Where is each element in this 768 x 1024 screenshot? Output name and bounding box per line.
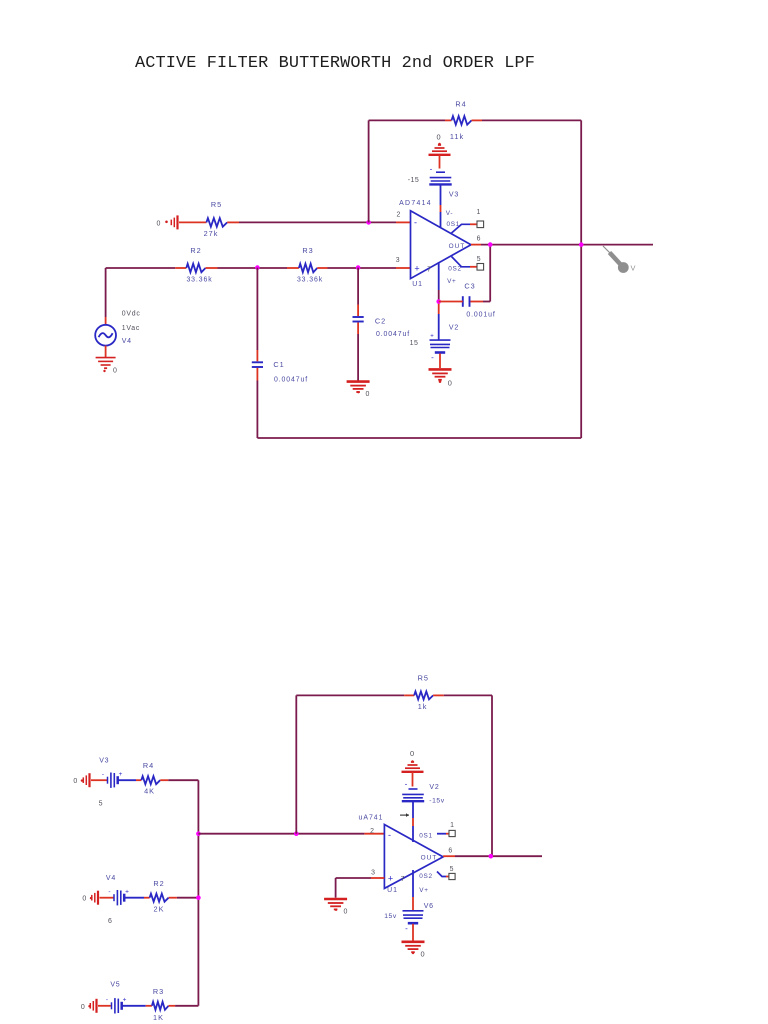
junction node bus/main wire bbox=[196, 831, 201, 836]
svg-text:V-: V- bbox=[446, 210, 453, 217]
svg-text:0.0047uf: 0.0047uf bbox=[376, 331, 410, 338]
op-amp U1 AD7414 bbox=[411, 211, 472, 279]
ground under V2 bbox=[429, 354, 452, 383]
wire V+ pin to V6 bbox=[412, 870, 414, 911]
label R4 bbox=[455, 100, 466, 109]
pin 2 label (uA741) bbox=[370, 828, 374, 835]
pin 6 label (uA741) bbox=[448, 848, 452, 855]
value 5 (V3) bbox=[99, 800, 103, 807]
wire V+ pin to V2 bbox=[438, 262, 440, 340]
svg-text:0.001uf: 0.001uf bbox=[466, 311, 495, 318]
svg-text:6: 6 bbox=[448, 848, 452, 855]
svg-text:1: 1 bbox=[476, 209, 480, 216]
junction node R2/R3/C1 bbox=[255, 265, 260, 270]
label V2 (summing) bbox=[429, 784, 439, 791]
ground (branch V4, rotated left) bbox=[90, 891, 114, 905]
label V6 bbox=[424, 903, 434, 910]
label OS1 (U1) bbox=[447, 221, 460, 228]
wire R3 to non-inverting input bbox=[317, 267, 410, 269]
probe label V bbox=[631, 264, 636, 273]
resistor R5 (summing feedback) bbox=[414, 691, 433, 699]
label OS1 (uA741) bbox=[419, 832, 432, 839]
svg-text:-: - bbox=[388, 830, 391, 840]
svg-text:6: 6 bbox=[477, 235, 481, 242]
wire top feedback left segment bbox=[369, 119, 452, 121]
svg-text:+: + bbox=[125, 889, 129, 896]
battery V4 (summing input) bbox=[108, 889, 129, 906]
svg-text:5: 5 bbox=[477, 256, 481, 263]
svg-text:6: 6 bbox=[108, 918, 112, 925]
svg-text:R3: R3 bbox=[302, 246, 313, 255]
svg-text:C3: C3 bbox=[464, 282, 475, 291]
ground under V6 bbox=[402, 942, 425, 954]
svg-text:V4: V4 bbox=[106, 875, 116, 882]
label V5 (summing) bbox=[110, 981, 120, 988]
net label 0 (above V2 summing) bbox=[410, 749, 414, 758]
label OS2 (uA741) bbox=[419, 873, 432, 880]
label V+ (uA741) bbox=[419, 887, 428, 894]
wire summing bus vertical bbox=[197, 780, 199, 1006]
net label 0 (above V3) bbox=[436, 132, 440, 141]
label C3 bbox=[464, 282, 475, 291]
junction node bus/branch V4 bbox=[196, 895, 201, 900]
svg-text:R4: R4 bbox=[455, 100, 466, 109]
svg-text:0: 0 bbox=[113, 367, 117, 374]
value 0.001uf (C3) bbox=[466, 311, 495, 318]
svg-text:-: - bbox=[102, 771, 104, 778]
wire OUT junction down to C3 bbox=[470, 245, 490, 302]
svg-text:R3: R3 bbox=[153, 987, 164, 996]
wire V5 to R3 bbox=[123, 1005, 152, 1007]
junction node feedback tap bbox=[294, 831, 299, 836]
svg-text:1k: 1k bbox=[418, 702, 428, 711]
resistor R5 bbox=[206, 218, 227, 227]
svg-text:V2: V2 bbox=[449, 325, 459, 332]
svg-text:-: - bbox=[405, 779, 408, 788]
wire right feedback vertical (summing) bbox=[491, 695, 493, 856]
svg-text:0: 0 bbox=[410, 749, 414, 758]
op-amp U1 uA741 bbox=[384, 825, 443, 889]
battery V6 bbox=[403, 911, 424, 933]
label V- (U1) bbox=[446, 210, 453, 217]
svg-text:V+: V+ bbox=[419, 887, 428, 894]
net label 0 (under V6) bbox=[421, 950, 425, 959]
battery V2 (summing supply) bbox=[402, 779, 424, 801]
ground (branch V5, rotated left) bbox=[88, 999, 111, 1013]
svg-text:C1: C1 bbox=[273, 360, 284, 369]
svg-text:0.0047uf: 0.0047uf bbox=[274, 376, 308, 383]
svg-text:2: 2 bbox=[396, 211, 400, 218]
svg-text:U1: U1 bbox=[387, 887, 398, 894]
svg-text:5: 5 bbox=[450, 866, 454, 873]
svg-text:V3: V3 bbox=[99, 757, 109, 764]
ground above V3 (rotated up) bbox=[429, 143, 451, 155]
label R5 (summing) bbox=[418, 673, 429, 682]
ground at non-inverting input bbox=[324, 899, 347, 911]
svg-text:ACTIVE FILTER BUTTERWORTH 2nd: ACTIVE FILTER BUTTERWORTH 2nd ORDER LPF bbox=[135, 54, 535, 73]
pin 7 label bbox=[427, 267, 431, 274]
value 33.36k (R3) bbox=[297, 277, 323, 284]
net label 0 (non-inverting ground) bbox=[344, 909, 348, 916]
svg-text:V3: V3 bbox=[449, 192, 459, 199]
V- pin arrow marker bbox=[400, 813, 409, 817]
net label 0 (under V2) bbox=[448, 378, 452, 387]
svg-text:33.36k: 33.36k bbox=[297, 277, 323, 284]
label V3 bbox=[449, 192, 459, 199]
pin 2 label bbox=[396, 211, 400, 218]
resistor R3 bbox=[299, 264, 317, 273]
svg-text:5: 5 bbox=[99, 800, 103, 807]
value -15 (V3) bbox=[408, 177, 420, 184]
value 27k bbox=[204, 229, 219, 238]
net label 0 (input ground) bbox=[157, 220, 161, 227]
svg-text:R2: R2 bbox=[190, 246, 201, 255]
junction node at C2 branch bbox=[356, 265, 361, 270]
net label 0 (branch V3) bbox=[73, 778, 77, 785]
value 1k (R5) bbox=[418, 702, 428, 711]
svg-text:1: 1 bbox=[450, 822, 454, 829]
svg-text:7: 7 bbox=[401, 876, 405, 883]
wire V2 to V- pin (summing) bbox=[412, 801, 414, 842]
value 11k bbox=[450, 132, 464, 141]
wire right feedback vertical bbox=[580, 120, 582, 438]
label C2 bbox=[375, 316, 386, 325]
net label 0 (under V4) bbox=[113, 367, 117, 374]
svg-text:0: 0 bbox=[81, 1004, 85, 1011]
junction node at feedback/inverting input bbox=[366, 220, 371, 225]
label AD7414 bbox=[399, 200, 432, 207]
capacitor C1 bbox=[252, 362, 263, 367]
svg-text:0: 0 bbox=[82, 896, 86, 903]
wire source to R2 bbox=[106, 267, 187, 269]
resistor R3 (summing) bbox=[152, 1002, 169, 1010]
value label 1Vac bbox=[122, 325, 140, 332]
wire top feedback right (summing) bbox=[433, 694, 492, 696]
svg-text:-: - bbox=[430, 164, 433, 173]
label R2 (summing) bbox=[153, 879, 164, 888]
value 0.0047uf (C1) bbox=[274, 376, 308, 383]
label V4 bbox=[122, 338, 132, 345]
value 15v (V6) bbox=[384, 913, 397, 920]
svg-text:+: + bbox=[414, 263, 419, 273]
resistor R2 (summing) bbox=[150, 894, 169, 902]
wire V6 to ground bbox=[412, 924, 414, 941]
label uA741 bbox=[359, 814, 384, 821]
label R2 bbox=[190, 246, 201, 255]
wire R2 to R3 bbox=[206, 267, 299, 269]
wire R4 to summing node bbox=[160, 779, 198, 781]
svg-text:-: - bbox=[405, 924, 408, 933]
offset null pin 1 wire and square (uA741) bbox=[437, 830, 455, 836]
svg-text:0S2: 0S2 bbox=[419, 873, 432, 880]
svg-text:R5: R5 bbox=[418, 673, 429, 682]
svg-text:-15v: -15v bbox=[429, 797, 444, 804]
junction node output/right feedback bbox=[579, 242, 584, 247]
battery V2 bbox=[430, 334, 451, 362]
svg-text:0S2: 0S2 bbox=[448, 265, 461, 272]
battery V3 (summing input) bbox=[102, 771, 123, 788]
pin 1 label (uA741) bbox=[450, 822, 454, 829]
svg-text:1Vac: 1Vac bbox=[122, 325, 140, 332]
label OUT (U1) bbox=[449, 243, 466, 250]
svg-text:AD7414: AD7414 bbox=[399, 200, 432, 207]
wire op-amp output bbox=[471, 244, 653, 246]
wire R5 to inverting input bbox=[227, 221, 410, 223]
value label 0Vdc bbox=[122, 310, 141, 317]
wire R3 to summing node bbox=[169, 1005, 199, 1007]
wire R2 to summing node bbox=[169, 897, 199, 899]
svg-text:U1: U1 bbox=[412, 281, 423, 288]
wire summing node to inverting input bbox=[198, 833, 384, 835]
svg-text:OUT: OUT bbox=[449, 243, 466, 250]
wire V4 to R2 bbox=[125, 897, 150, 899]
svg-text:0Vdc: 0Vdc bbox=[122, 310, 141, 317]
svg-text:V: V bbox=[631, 264, 636, 273]
svg-text:2: 2 bbox=[370, 828, 374, 835]
capacitor C3 bbox=[463, 296, 470, 307]
label U1 (summing) bbox=[387, 887, 398, 894]
wire op-amp output (summing) bbox=[443, 855, 542, 857]
resistor R4 bbox=[452, 116, 472, 125]
title bbox=[135, 54, 535, 73]
net label 0 (branch V5) bbox=[81, 1004, 85, 1011]
svg-text:3: 3 bbox=[396, 257, 400, 264]
label V2 bbox=[449, 325, 459, 332]
wire C3 to V+ node bbox=[439, 301, 463, 303]
svg-text:15v: 15v bbox=[384, 913, 397, 920]
wire C1 branch upper bbox=[256, 268, 258, 362]
junction node at V+/C3 bbox=[436, 299, 441, 304]
label R5 bbox=[211, 200, 222, 209]
label C1 bbox=[273, 360, 284, 369]
svg-text:V+: V+ bbox=[447, 278, 456, 285]
battery V5 (summing input) bbox=[106, 997, 127, 1014]
svg-text:0: 0 bbox=[157, 220, 161, 227]
svg-text:11k: 11k bbox=[450, 132, 464, 141]
svg-text:+: + bbox=[430, 334, 434, 340]
pin 7 label (uA741) bbox=[401, 876, 405, 883]
junction node at output bbox=[488, 242, 493, 247]
wire C1 branch lower bbox=[256, 368, 258, 438]
ground (input reference, rotated left) bbox=[165, 215, 206, 229]
svg-text:-: - bbox=[414, 218, 417, 228]
svg-text:C2: C2 bbox=[375, 316, 386, 325]
value 15 (V2) bbox=[410, 340, 419, 347]
svg-text:7: 7 bbox=[427, 267, 431, 274]
label OUT (uA741) bbox=[421, 855, 438, 862]
pin 3 label bbox=[396, 257, 400, 264]
offset null pin 1 wire and terminal square bbox=[452, 221, 484, 233]
value 4K bbox=[144, 787, 155, 796]
value 0.0047uf (C2) bbox=[376, 331, 410, 338]
svg-text:3: 3 bbox=[371, 869, 375, 876]
svg-text:0: 0 bbox=[421, 950, 425, 959]
offset null pin 5 wire and square (uA741) bbox=[437, 872, 455, 880]
wire ground to V3 bbox=[439, 155, 441, 169]
label R3 bbox=[302, 246, 313, 255]
svg-text:-15: -15 bbox=[408, 177, 420, 184]
svg-text:15: 15 bbox=[410, 340, 419, 347]
svg-text:2K: 2K bbox=[154, 904, 165, 913]
svg-text:R5: R5 bbox=[211, 200, 222, 209]
pin 3 label (uA741) bbox=[371, 869, 375, 876]
value 33.36k (R2) bbox=[186, 277, 212, 284]
pin 6 label bbox=[477, 235, 481, 242]
wire V3 to R4 bbox=[119, 779, 142, 781]
net label 0 (branch V4) bbox=[82, 896, 86, 903]
value -15v bbox=[429, 797, 444, 804]
svg-text:0: 0 bbox=[366, 391, 370, 398]
svg-text:-: - bbox=[106, 997, 108, 1004]
label U1 bbox=[412, 281, 423, 288]
pin 5 label bbox=[477, 256, 481, 263]
resistor R2 bbox=[186, 264, 205, 273]
label R4 (summing) bbox=[143, 761, 154, 770]
svg-text:OUT: OUT bbox=[421, 855, 438, 862]
value 2K bbox=[154, 904, 165, 913]
battery V3 bbox=[429, 164, 451, 184]
svg-text:-: - bbox=[431, 353, 434, 362]
svg-text:V5: V5 bbox=[110, 981, 120, 988]
offset null pin 5 wire and terminal square bbox=[452, 257, 484, 271]
svg-text:0: 0 bbox=[344, 909, 348, 916]
value 1K bbox=[153, 1013, 164, 1022]
svg-text:R2: R2 bbox=[153, 879, 164, 888]
svg-text:+: + bbox=[119, 771, 123, 778]
svg-text:V6: V6 bbox=[424, 903, 434, 910]
svg-text:0S1: 0S1 bbox=[419, 832, 432, 839]
svg-text:33.36k: 33.36k bbox=[186, 277, 212, 284]
wire feedback left vertical bbox=[368, 120, 370, 222]
label OS2 (U1) bbox=[448, 265, 461, 272]
junction node output/feedback (summing) bbox=[489, 854, 494, 859]
ground (branch V3, rotated left) bbox=[81, 773, 107, 787]
svg-text:1K: 1K bbox=[153, 1013, 164, 1022]
label R3 (summing) bbox=[153, 987, 164, 996]
wire bottom feedback bbox=[257, 437, 581, 439]
voltage probe V bbox=[603, 246, 629, 273]
resistor R4 (summing) bbox=[141, 776, 160, 784]
svg-text:+: + bbox=[388, 873, 393, 883]
svg-text:+: + bbox=[123, 997, 127, 1004]
ground under V4 bbox=[96, 346, 116, 373]
wire input vertical to source V4 bbox=[105, 268, 107, 325]
wire ground to V2 (summing) bbox=[412, 772, 414, 787]
pin 5 label (uA741) bbox=[450, 866, 454, 873]
svg-text:V4: V4 bbox=[122, 338, 132, 345]
wire C2 branch lower bbox=[357, 323, 359, 382]
svg-text:uA741: uA741 bbox=[359, 814, 384, 821]
svg-text:-: - bbox=[108, 889, 110, 896]
label V4 (summing) bbox=[106, 875, 116, 882]
wire V3 to V- pin bbox=[440, 185, 442, 228]
pin 1 label bbox=[476, 209, 480, 216]
svg-text:27k: 27k bbox=[204, 229, 219, 238]
ground above V2 (summing, rotated up) bbox=[402, 760, 424, 772]
wire top feedback left (summing) bbox=[296, 694, 414, 696]
svg-text:0: 0 bbox=[448, 378, 452, 387]
ground under C2 bbox=[347, 382, 370, 394]
wire C2 branch upper bbox=[357, 268, 359, 316]
wire top feedback right segment bbox=[472, 119, 582, 121]
svg-text:4K: 4K bbox=[144, 787, 155, 796]
AC source V4 bbox=[95, 325, 116, 346]
svg-text:0: 0 bbox=[436, 132, 440, 141]
label V+ (U1) bbox=[447, 278, 456, 285]
svg-text:0: 0 bbox=[73, 778, 77, 785]
svg-text:V2: V2 bbox=[429, 784, 439, 791]
svg-text:R4: R4 bbox=[143, 761, 154, 770]
net label 0 (under C2) bbox=[366, 391, 370, 398]
label V3 (summing) bbox=[99, 757, 109, 764]
wire feedback left vertical (summing) bbox=[295, 695, 297, 833]
capacitor C2 bbox=[353, 317, 364, 322]
value 6 (V4) bbox=[108, 918, 112, 925]
wire non-inverting input to ground bbox=[336, 878, 385, 898]
